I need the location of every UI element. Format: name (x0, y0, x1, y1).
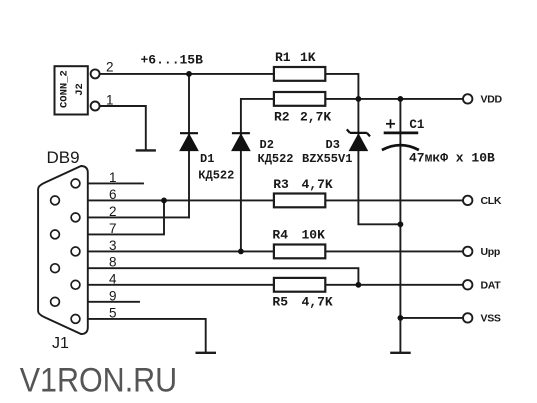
svg-text:R5: R5 (272, 294, 288, 309)
svg-text:7: 7 (109, 221, 117, 236)
svg-text:2: 2 (106, 60, 114, 75)
svg-text:2: 2 (109, 204, 117, 219)
svg-text:8: 8 (109, 255, 117, 270)
svg-text:4,7K: 4,7K (302, 294, 333, 309)
svg-text:R3: R3 (273, 177, 289, 192)
svg-text:J1: J1 (52, 335, 69, 352)
svg-text:DAT: DAT (481, 279, 502, 291)
svg-text:DB9: DB9 (47, 148, 80, 167)
svg-text:КД522: КД522 (198, 169, 234, 183)
svg-text:47мкФ x 10В: 47мкФ x 10В (409, 150, 495, 165)
svg-text:9: 9 (109, 288, 117, 303)
svg-text:D1: D1 (200, 152, 214, 166)
svg-text:R1: R1 (275, 50, 291, 65)
svg-text:1: 1 (106, 93, 114, 108)
svg-text:10K: 10K (302, 227, 326, 242)
svg-text:4,7K: 4,7K (302, 177, 333, 192)
svg-text:1: 1 (109, 170, 117, 185)
svg-text:VDD: VDD (481, 94, 503, 106)
svg-text:2,7K: 2,7K (300, 110, 331, 125)
svg-text:1K: 1K (300, 50, 316, 65)
svg-text:3: 3 (109, 238, 117, 253)
svg-text:BZX55V1: BZX55V1 (302, 152, 352, 166)
svg-text:D3: D3 (326, 138, 340, 152)
svg-text:CONN_2: CONN_2 (58, 70, 70, 108)
svg-text:VSS: VSS (481, 313, 501, 325)
svg-text:CLK: CLK (481, 195, 502, 207)
svg-text:КД522: КД522 (258, 152, 294, 166)
svg-text:D2: D2 (260, 138, 274, 152)
svg-text:6: 6 (109, 187, 117, 202)
svg-text:R4: R4 (272, 227, 288, 242)
svg-text:C1: C1 (409, 118, 424, 132)
svg-text:5: 5 (109, 305, 117, 320)
svg-text:Upp: Upp (481, 246, 501, 258)
svg-text:4: 4 (109, 271, 117, 286)
svg-text:+6...15В: +6...15В (141, 52, 204, 67)
svg-text:V1RON.RU: V1RON.RU (20, 361, 178, 399)
svg-text:J2: J2 (74, 83, 86, 96)
svg-text:R2: R2 (274, 110, 290, 125)
